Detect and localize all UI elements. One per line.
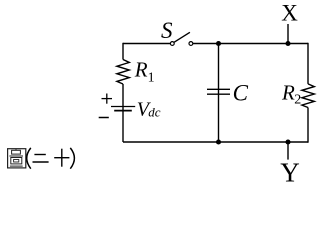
svg-text:X: X	[281, 1, 298, 26]
wire: bottom horizontal	[123, 141, 308, 143]
svg-text:1: 1	[148, 70, 155, 85]
switch S lever	[174, 32, 190, 42]
svg-text:R: R	[134, 58, 148, 82]
caption close paren	[70, 148, 74, 169]
svg-text:Y: Y	[280, 158, 300, 188]
capacitor C bottom plate	[207, 93, 230, 95]
caption glyph 圖	[8, 149, 26, 168]
wire: Y terminal stub	[287, 142, 289, 160]
junction dot at Y	[285, 139, 290, 144]
svg-text:R: R	[281, 80, 295, 104]
battery Vdc long plate (+)	[111, 106, 135, 108]
svg-text:S: S	[161, 18, 173, 43]
svg-text:2: 2	[294, 92, 301, 107]
caption glyph 二	[33, 155, 49, 163]
wire: right vertical lower (R2 to bottom corner)	[307, 108, 309, 143]
caption glyph 十	[54, 149, 69, 167]
wire: X terminal stub	[287, 24, 289, 44]
wire: left vertical upper (corner to R1)	[122, 43, 124, 60]
capacitor C top plate	[207, 88, 230, 90]
wire: capacitor branch vertical	[218, 44, 220, 143]
svg-text:C: C	[233, 81, 249, 106]
junction dot at capacitor bottom	[216, 139, 221, 144]
wire: left vertical lower (R1 through battery to bottom corner)	[122, 84, 124, 142]
switch S left contact circle	[170, 42, 174, 46]
caption open paren	[27, 148, 31, 169]
switch S right contact circle	[189, 42, 193, 46]
wire: right vertical upper (top corner to R2)	[307, 43, 309, 84]
battery minus sign	[99, 117, 109, 119]
resistor R2 zigzag	[302, 84, 314, 108]
wire: top-right horizontal (switch to top-right corner)	[193, 43, 308, 45]
junction dot at capacitor top	[216, 41, 221, 46]
svg-text:dc: dc	[148, 105, 161, 120]
battery plus sign	[102, 94, 113, 104]
resistor R1 zigzag	[117, 60, 129, 85]
battery Vdc short plate (-)	[114, 110, 132, 112]
junction dot at X	[285, 41, 290, 46]
wire: top-left horizontal (corner to switch)	[123, 43, 170, 45]
